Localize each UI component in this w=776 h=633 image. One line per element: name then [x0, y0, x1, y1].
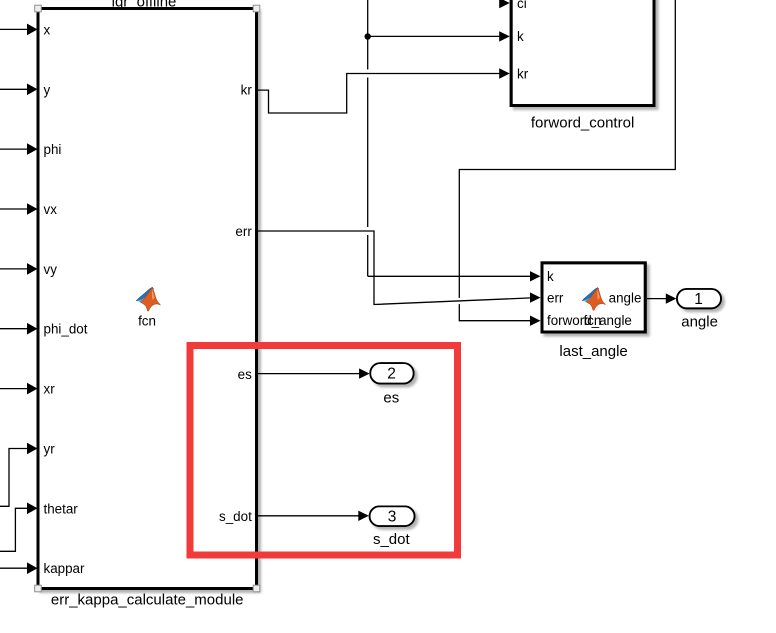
output port label err	[235, 224, 252, 239]
output port label kr	[241, 82, 253, 97]
svg-text:x: x	[44, 22, 51, 37]
subsystem block err_kappa_calculate_module	[38, 9, 257, 589]
wire input yr	[0, 443, 38, 507]
svg-text:fcn: fcn	[583, 313, 601, 328]
red highlight rectangle annotation	[190, 346, 458, 556]
block name label last_angle	[559, 343, 627, 360]
port label x	[44, 22, 51, 37]
port label y	[44, 82, 51, 97]
wire k vertical trunk with junction	[368, 0, 541, 282]
svg-text:lqr_offline: lqr_offline	[112, 0, 177, 11]
port label k (last_angle)	[547, 269, 554, 284]
wire input x	[0, 24, 38, 36]
wire input kappar	[0, 562, 38, 574]
matlab fcn icon in err_kappa_calculate_module	[136, 287, 160, 311]
wire es to outport 2	[258, 368, 370, 378]
port label k (forword_control)	[517, 29, 524, 44]
fcn label (last_angle)	[583, 313, 601, 328]
svg-text:vx: vx	[44, 202, 58, 217]
wire err from err_kappa module to last_angle	[258, 231, 541, 305]
wire forword_angle from top right to last_angle	[459, 0, 675, 326]
svg-text:forword_control: forword_control	[531, 115, 634, 132]
outport label s_dot	[373, 531, 411, 548]
outport 3 s_dot oval	[370, 506, 415, 526]
svg-text:s_dot: s_dot	[219, 509, 252, 524]
svg-text:k: k	[517, 29, 524, 44]
wire input xr	[0, 383, 38, 395]
svg-text:phi: phi	[44, 142, 62, 157]
port label angle output (last_angle)	[609, 291, 642, 306]
port label vx	[44, 202, 58, 217]
svg-text:err: err	[235, 224, 252, 239]
port label vy	[44, 262, 58, 277]
svg-text:vy: vy	[44, 262, 58, 277]
selection handle bottom-right	[253, 585, 260, 592]
output port label s_dot	[219, 509, 252, 524]
port label phi	[44, 142, 62, 157]
outport label es	[383, 390, 399, 407]
svg-text:kr: kr	[517, 66, 529, 81]
selection handle top-left	[35, 5, 42, 12]
svg-text:y: y	[44, 82, 51, 97]
svg-text:thetar: thetar	[44, 501, 79, 516]
svg-text:last_angle: last_angle	[559, 343, 627, 360]
junction dot k	[365, 33, 371, 39]
svg-text:3: 3	[388, 509, 397, 526]
svg-text:phi_dot: phi_dot	[44, 322, 88, 337]
block title lqr_offline (clipped at top)	[112, 0, 177, 11]
port label phi_dot	[44, 322, 88, 337]
selection handle top-right	[253, 5, 260, 12]
svg-text:angle: angle	[609, 291, 642, 306]
svg-text:1: 1	[694, 291, 703, 308]
wire input thetar	[0, 503, 38, 552]
block name label err_kappa_calculate_module	[51, 591, 244, 608]
wire kr from err_kappa module to forword_control	[258, 68, 510, 113]
port label ci	[517, 0, 527, 11]
svg-text:angle: angle	[681, 314, 718, 331]
subsystem block forword_control (top clipped)	[511, 0, 654, 106]
selection handle bottom-left	[35, 585, 42, 592]
wire input phi_dot	[0, 323, 38, 335]
port label xr	[44, 382, 56, 397]
svg-text:kappar: kappar	[44, 561, 85, 576]
matlab fcn icon in last_angle	[582, 288, 605, 311]
wire input vy	[0, 263, 38, 275]
outport 2 es oval	[370, 363, 413, 383]
block name label forword_control	[531, 115, 634, 132]
wire input y	[0, 84, 38, 96]
wire s_dot to outport 3	[258, 511, 369, 521]
svg-text:kr: kr	[241, 82, 253, 97]
wire input vx	[0, 203, 38, 215]
svg-text:ci: ci	[517, 0, 527, 11]
wire k branch to forword_control	[368, 31, 510, 41]
svg-text:err_kappa_calculate_module: err_kappa_calculate_module	[51, 591, 244, 608]
output port label es	[238, 367, 252, 382]
svg-text:yr: yr	[44, 442, 56, 457]
svg-text:fcn: fcn	[138, 313, 156, 328]
port label kappar	[44, 561, 85, 576]
svg-text:k: k	[547, 269, 554, 284]
svg-text:es: es	[383, 390, 399, 407]
svg-text:s_dot: s_dot	[373, 531, 411, 548]
svg-text:2: 2	[387, 366, 396, 383]
port label err (last_angle)	[547, 290, 564, 305]
port label thetar	[44, 501, 79, 516]
wire angle to outport 1	[647, 293, 676, 303]
outport label angle	[681, 314, 718, 331]
port label kr (forword_control)	[517, 66, 529, 81]
fcn label	[138, 313, 156, 328]
wire input phi	[0, 143, 38, 155]
outport 1 angle oval	[677, 289, 721, 308]
port label yr	[44, 442, 56, 457]
svg-text:es: es	[238, 367, 252, 382]
port arrow ci	[499, 0, 510, 8]
port label forword_angle (last_angle)	[547, 313, 632, 328]
svg-text:err: err	[547, 290, 564, 305]
block last_angle	[542, 263, 645, 332]
svg-text:xr: xr	[44, 382, 56, 397]
